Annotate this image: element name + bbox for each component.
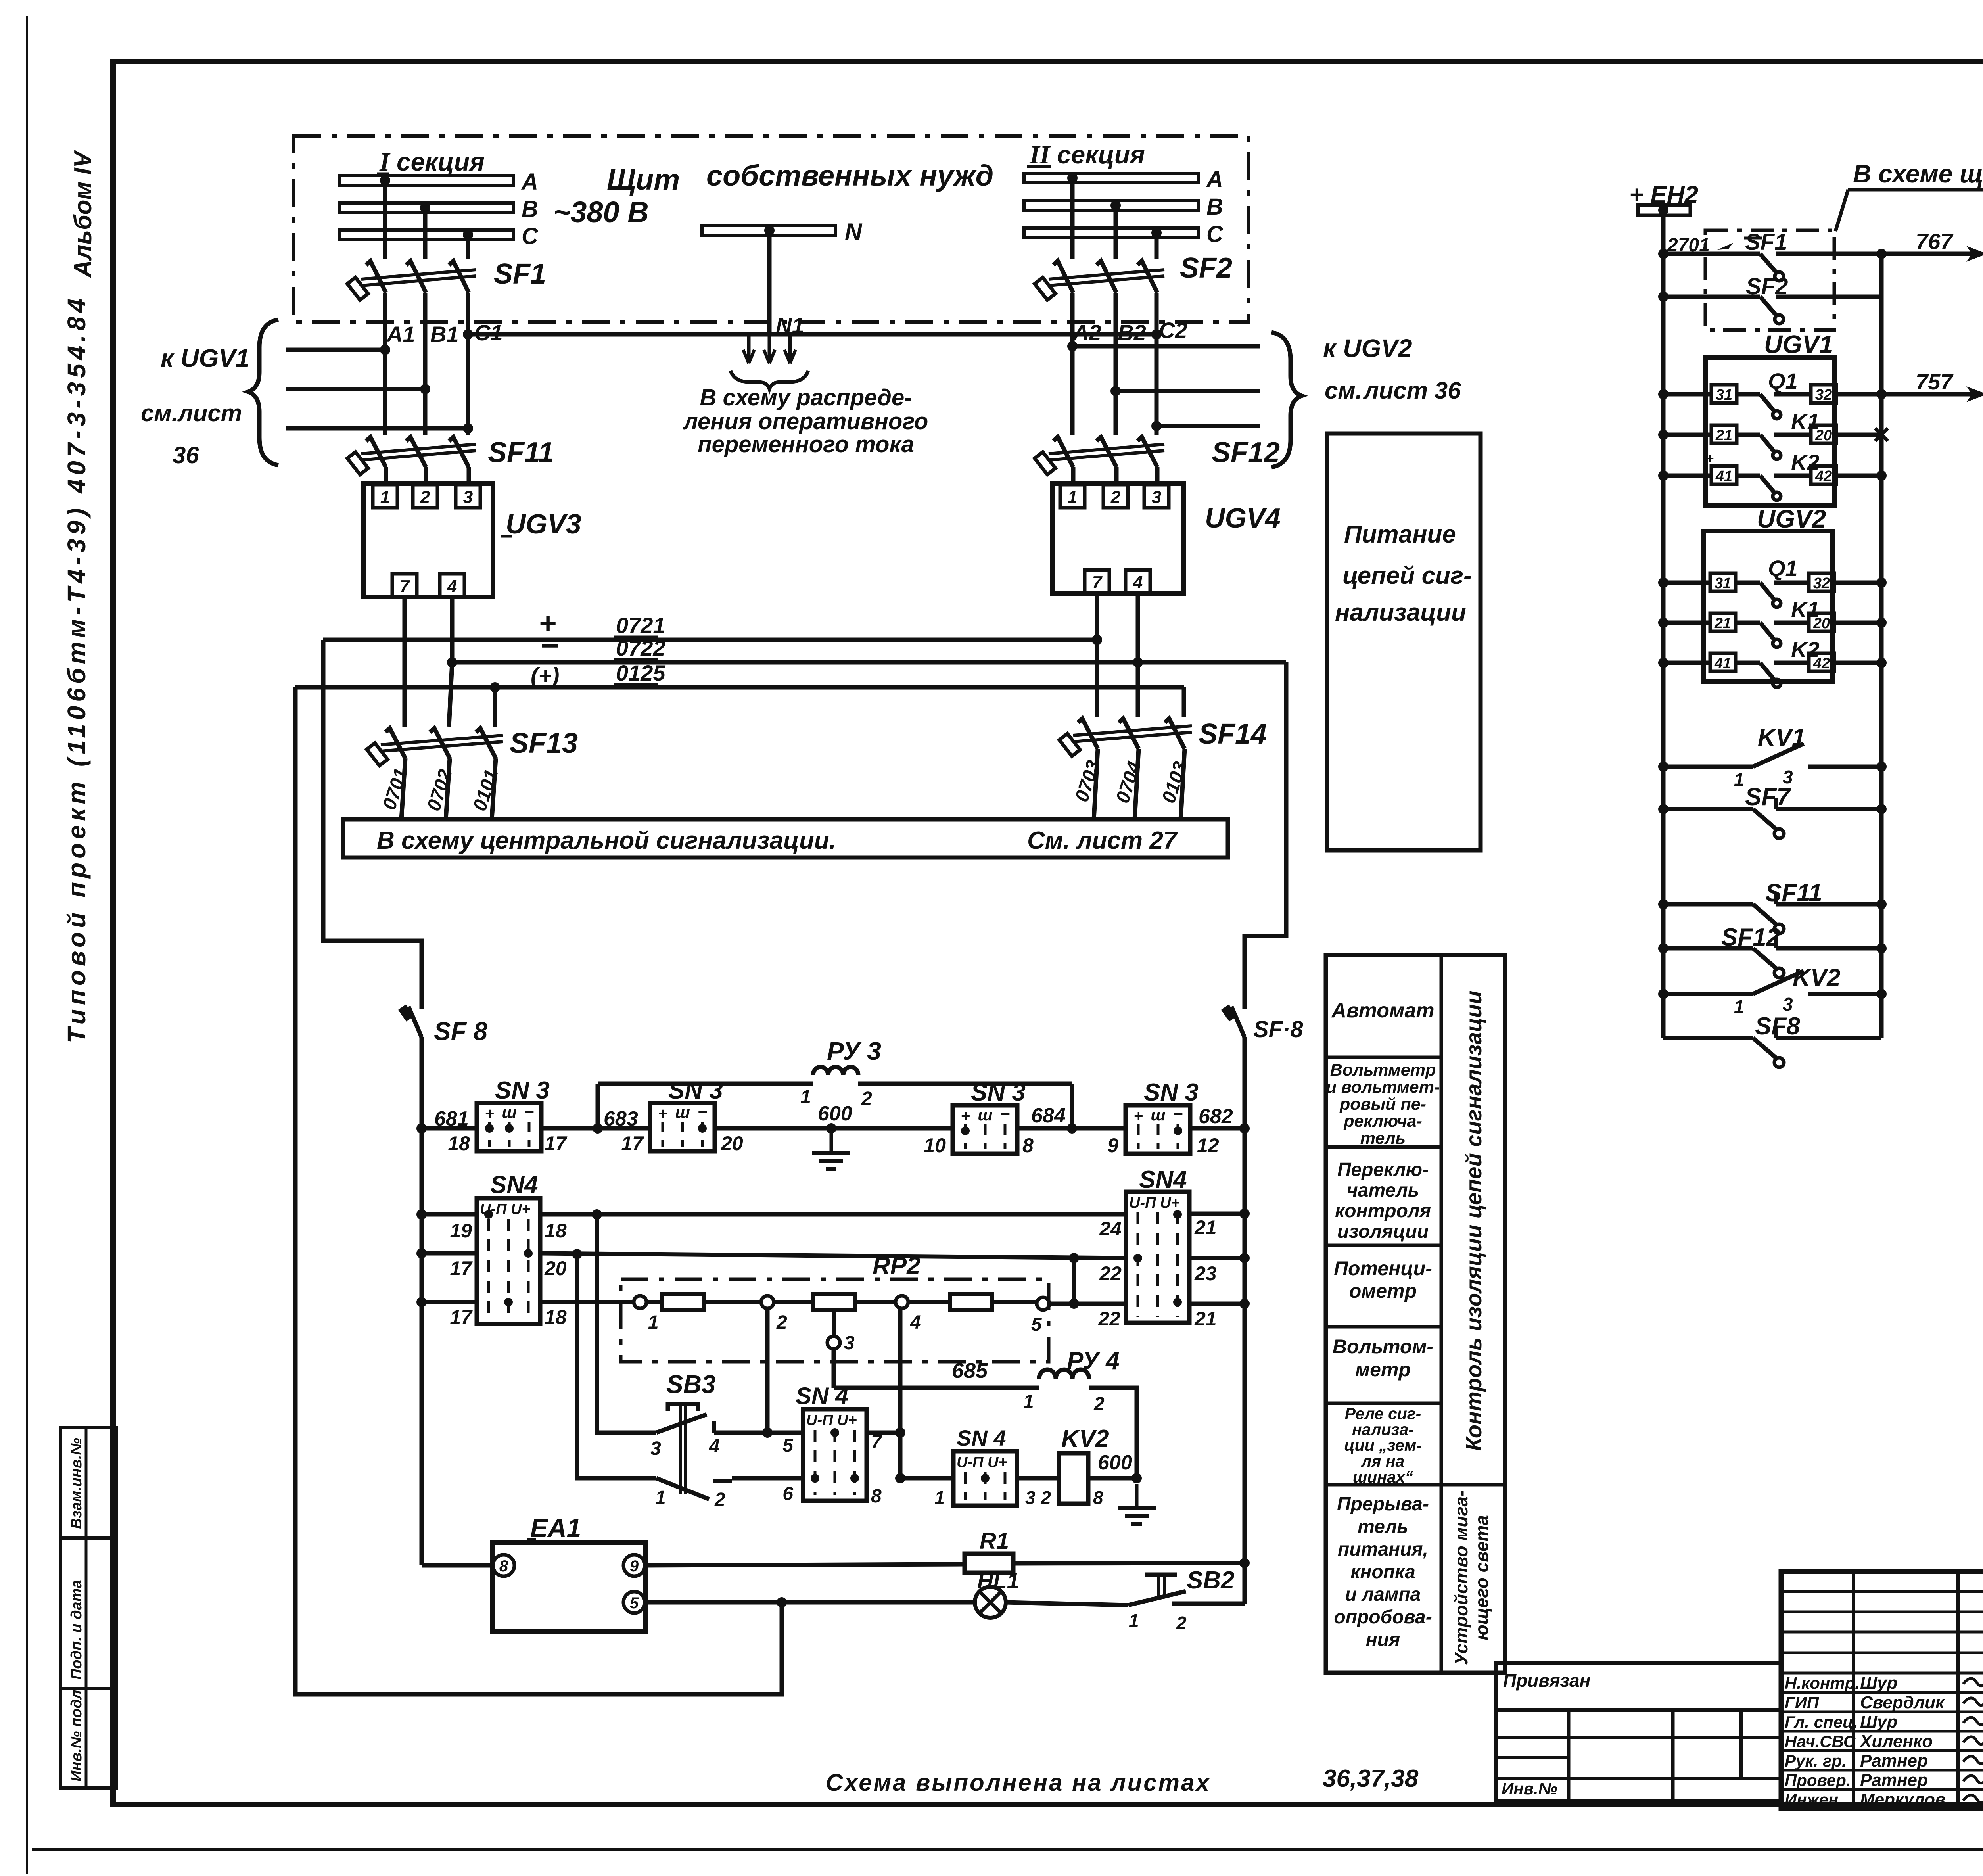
svg-text:A1: A1 — [386, 322, 415, 347]
svg-text:SF14: SF14 — [1199, 718, 1267, 750]
lower-left grid of title area — [1496, 1710, 1781, 1801]
svg-text:1: 1 — [380, 487, 390, 507]
svg-text:767: 767 — [1916, 229, 1954, 254]
svg-text:SN 3: SN 3 — [495, 1077, 550, 1104]
svg-text:7: 7 — [400, 577, 410, 596]
svg-text:1: 1 — [1023, 1391, 1034, 1412]
wire row SN4-KV2 — [900, 1476, 953, 1481]
rectifier unit UGV4 — [1053, 483, 1184, 594]
svg-text:EA1: EA1 — [530, 1513, 581, 1542]
svg-text:31: 31 — [1715, 575, 1731, 592]
svg-text:−: − — [698, 1102, 708, 1121]
svg-text:1: 1 — [648, 1312, 659, 1333]
svg-text:РУ 4: РУ 4 — [1067, 1347, 1120, 1375]
svg-text:C: C — [522, 223, 539, 249]
svg-text:Меркулов: Меркулов — [1860, 1790, 1946, 1809]
svg-text:6: 6 — [782, 1483, 793, 1504]
svg-text:SN 3: SN 3 — [668, 1077, 723, 1104]
svg-text:3: 3 — [463, 487, 473, 507]
svg-text:опробова-: опробова- — [1334, 1607, 1432, 1628]
svg-text:600: 600 — [1098, 1451, 1132, 1474]
svg-text:U-П U+: U-П U+ — [1129, 1195, 1180, 1211]
svg-text:+: + — [1705, 450, 1714, 466]
potentiometer RP2 boundary — [621, 1279, 1049, 1362]
svg-text:+: + — [658, 1105, 667, 1122]
svg-text:KV2: KV2 — [1061, 1425, 1109, 1452]
svg-text:Инв.№: Инв.№ — [1502, 1779, 1557, 1798]
svg-text:собственных нужд: собственных нужд — [706, 159, 993, 192]
riser RP2 t3 to wire 685 — [832, 1349, 836, 1388]
svg-text:B: B — [522, 196, 538, 222]
UGV2 contact K1 — [1658, 618, 1668, 628]
svg-text:20: 20 — [721, 1132, 743, 1155]
UGV1 contact K1 — [1658, 430, 1668, 440]
svg-text:A: A — [1206, 167, 1223, 192]
insulation switch SN4 no.4 — [953, 1451, 1017, 1506]
svg-text:1: 1 — [1734, 996, 1744, 1017]
title block personnel grid — [1852, 1571, 1855, 1809]
svg-text:Q1: Q1 — [1768, 556, 1798, 581]
svg-text:ГИП: ГИП — [1785, 1693, 1819, 1712]
svg-text:KV2: KV2 — [1793, 964, 1841, 992]
svg-text:секция: секция — [397, 148, 485, 176]
svg-text:ометр: ометр — [1349, 1280, 1417, 1302]
svg-text:Потенци-: Потенци- — [1334, 1257, 1432, 1279]
svg-text:−: − — [540, 628, 559, 663]
busbar II phase B — [1024, 201, 1199, 210]
svg-text:Q1: Q1 — [1768, 368, 1798, 393]
svg-text:757: 757 — [1916, 369, 1954, 394]
svg-text:5: 5 — [630, 1594, 639, 1612]
svg-text:22: 22 — [1099, 1262, 1122, 1285]
svg-text:2: 2 — [1110, 487, 1121, 507]
wire rail to EA1 pin8 — [422, 1563, 493, 1568]
svg-text:SN 3: SN 3 — [1144, 1079, 1199, 1106]
RP2 resistor 1 — [646, 1300, 662, 1304]
left rail from 0721 down — [323, 640, 422, 1009]
svg-text:SN4: SN4 — [490, 1171, 538, 1199]
svg-text:N1: N1 — [776, 313, 804, 338]
RP2 terminal 4 — [896, 1296, 908, 1308]
svg-text:32: 32 — [1815, 387, 1832, 403]
svg-text:1: 1 — [800, 1087, 811, 1108]
contact SF1 — [1658, 249, 1668, 259]
SN4 row A — [416, 1209, 427, 1220]
busbar II phase A — [1024, 173, 1199, 183]
svg-text:ш: ш — [675, 1103, 690, 1122]
svg-text:685: 685 — [952, 1359, 988, 1383]
svg-text:SF1: SF1 — [494, 258, 546, 290]
wire C1 to C2 — [468, 332, 1156, 337]
svg-text:метр: метр — [1355, 1358, 1411, 1381]
resistor R1 — [965, 1554, 1013, 1573]
relay KV2 — [1059, 1453, 1088, 1504]
tie rows B-C — [1072, 1258, 1076, 1304]
SN4 row B — [416, 1248, 427, 1258]
RP2 resistor 2 — [774, 1300, 813, 1304]
svg-text:Подп. и дата: Подп. и дата — [68, 1580, 85, 1680]
svg-text:7: 7 — [1092, 573, 1103, 592]
riser RP2 t4 down — [898, 1308, 903, 1478]
svg-text:SF12: SF12 — [1721, 924, 1780, 951]
svg-text:22: 22 — [1098, 1308, 1120, 1330]
wire 0701 — [401, 758, 405, 819]
main rail from EH2 — [1661, 215, 1666, 1038]
dash-dot box SF1 SF2 — [1705, 230, 1834, 330]
breaker SF8 left — [408, 1007, 422, 1037]
svg-text:0704: 0704 — [1112, 759, 1145, 806]
svg-text:тель: тель — [1358, 1516, 1408, 1537]
svg-text:8: 8 — [1022, 1134, 1034, 1157]
riser node 683 to PY3 — [596, 1084, 600, 1128]
contact SF2 — [1663, 295, 1760, 299]
svg-text:36,37,38: 36,37,38 — [1323, 1765, 1419, 1792]
svg-text:A: A — [521, 169, 538, 195]
title block outer — [1781, 1571, 1983, 1809]
breaker SF12 — [1070, 346, 1075, 435]
svg-text:8: 8 — [499, 1558, 508, 1575]
svg-text:секция: секция — [1057, 140, 1145, 169]
svg-text:8: 8 — [871, 1486, 882, 1507]
wires SF1 to A1 B1 C1 — [383, 293, 387, 350]
svg-text:17: 17 — [621, 1132, 644, 1155]
svg-text:12: 12 — [1197, 1134, 1219, 1157]
svg-text:ш: ш — [502, 1103, 516, 1122]
contact SF12 ladder — [1658, 943, 1668, 953]
svg-text:36: 36 — [173, 442, 199, 468]
svg-text:РУ 3: РУ 3 — [827, 1037, 881, 1065]
PY3 wire to node 684 — [858, 1082, 1072, 1086]
svg-text:Питание: Питание — [1344, 521, 1456, 548]
insulation switch SN4 no.1 — [477, 1198, 540, 1324]
svg-text:17: 17 — [450, 1257, 473, 1279]
svg-text:41: 41 — [1714, 655, 1731, 672]
svg-text:−: − — [524, 1102, 534, 1121]
svg-text:+: + — [1133, 1107, 1143, 1125]
svg-text:ровый пе-: ровый пе- — [1339, 1095, 1426, 1114]
svg-text:переменного тока: переменного тока — [698, 432, 914, 457]
voltmeter switch SN3 no.1 — [477, 1103, 541, 1151]
svg-text:изоляции: изоляции — [1337, 1221, 1429, 1242]
svg-text:Инв.№ подл.: Инв.№ подл. — [68, 1686, 85, 1782]
svg-text:к UGV1: к UGV1 — [161, 344, 250, 372]
svg-text:683: 683 — [604, 1107, 638, 1130]
svg-text:SF·8: SF·8 — [1253, 1017, 1303, 1042]
svg-text:Хиленко: Хиленко — [1859, 1732, 1933, 1751]
breaker SF2 — [1053, 261, 1073, 293]
svg-text:шинах“: шинах“ — [1353, 1468, 1413, 1486]
svg-text:N: N — [845, 219, 863, 245]
svg-text:10: 10 — [924, 1134, 946, 1157]
svg-text:684: 684 — [1031, 1104, 1066, 1127]
svg-text:8: 8 — [1093, 1487, 1103, 1508]
SN3 row wire — [416, 1123, 427, 1134]
SN4 row C — [416, 1297, 427, 1307]
svg-text:Шур: Шур — [1860, 1673, 1897, 1693]
svg-text:3: 3 — [650, 1438, 661, 1459]
svg-text:Альбом IV: Альбом IV — [69, 150, 97, 278]
svg-text:SN 3: SN 3 — [971, 1079, 1026, 1106]
svg-text:2: 2 — [1040, 1487, 1051, 1508]
svg-text:18: 18 — [545, 1220, 567, 1242]
brace under feeder arrows — [731, 371, 808, 389]
svg-text:U-П U+: U-П U+ — [957, 1454, 1007, 1471]
svg-text:600: 600 — [818, 1102, 852, 1125]
svg-text:SF2: SF2 — [1180, 252, 1232, 284]
svg-text:23: 23 — [1194, 1262, 1217, 1285]
svg-text:Устройство мига-: Устройство мига- — [1451, 1490, 1471, 1665]
PY4 wire down to node 600 — [1089, 1388, 1137, 1478]
svg-text:Автомат: Автомат — [1331, 999, 1434, 1022]
wire 685 tap — [834, 1386, 1039, 1390]
right bus vertical — [1879, 254, 1884, 1038]
svg-text:Переклю-: Переклю- — [1337, 1159, 1429, 1180]
inductor PY4 — [1039, 1370, 1089, 1379]
svg-text:и лампа: и лампа — [1345, 1584, 1421, 1605]
svg-text:ш: ш — [978, 1105, 992, 1124]
svg-text:UGV3: UGV3 — [506, 508, 581, 539]
svg-text:(+): (+) — [531, 663, 560, 689]
svg-text:нализации: нализации — [1335, 599, 1466, 626]
svg-text:В схеме щита С.Н.: В схеме щита С.Н. — [1853, 159, 1983, 188]
breaker SF11 — [383, 350, 387, 435]
svg-text:Гл. спец.: Гл. спец. — [1785, 1713, 1858, 1731]
busbar N — [702, 226, 836, 235]
svg-text:+: + — [485, 1105, 494, 1122]
svg-text:21: 21 — [1194, 1308, 1217, 1330]
svg-text:ления оперативного: ления оперативного — [683, 409, 928, 434]
insulation switch SN4 no.2 — [1126, 1192, 1189, 1323]
wire 757 out — [1881, 392, 1979, 397]
svg-text:Контроль изоляции цепей: Контроль изоляции цепей сигнализации — [1461, 991, 1486, 1451]
svg-text:+: + — [961, 1107, 970, 1125]
insulation switch SN4 no.3 — [803, 1409, 867, 1501]
svg-text:контроля: контроля — [1335, 1201, 1431, 1222]
svg-text:SF11: SF11 — [488, 437, 554, 468]
svg-text:RP2: RP2 — [873, 1252, 921, 1279]
svg-text:к UGV2: к UGV2 — [1323, 334, 1412, 363]
svg-text:17: 17 — [450, 1306, 473, 1328]
UGV2 contact K2 — [1658, 658, 1668, 668]
svg-text:2: 2 — [714, 1489, 725, 1510]
riser 0125 to SF13 — [493, 687, 497, 727]
svg-text:R1: R1 — [980, 1528, 1009, 1554]
svg-text:~380 В: ~380 В — [553, 196, 649, 228]
svg-text:0701: 0701 — [379, 765, 412, 812]
SB3 contact 3-4 — [656, 1414, 707, 1433]
UGV1 contact Q1 — [1658, 389, 1668, 399]
ground at 600 — [830, 1128, 833, 1153]
busbar II phase C — [1024, 228, 1199, 238]
svg-text:SN4: SN4 — [1139, 1166, 1187, 1193]
svg-text:18: 18 — [545, 1306, 567, 1328]
svg-text:1: 1 — [1129, 1610, 1139, 1631]
svg-text:см.лист: см.лист — [141, 400, 242, 426]
svg-text:2: 2 — [776, 1312, 787, 1333]
svg-text:Взам.инв.№: Взам.инв.№ — [68, 1438, 85, 1529]
svg-text:KV1: KV1 — [1758, 724, 1806, 751]
svg-text:7: 7 — [871, 1432, 882, 1453]
ground at KV2 600 — [1135, 1484, 1139, 1508]
wire HL1 to SB2 — [1006, 1602, 1128, 1605]
RP2 terminal 1 — [634, 1296, 646, 1308]
svg-text:681: 681 — [434, 1107, 469, 1130]
feed box питание цепей сигнализации — [1327, 434, 1481, 850]
svg-text:3: 3 — [1025, 1487, 1036, 1508]
wire row C to RP2 — [540, 1300, 635, 1304]
svg-text:3: 3 — [1783, 994, 1793, 1015]
svg-text:SF 8: SF 8 — [434, 1017, 488, 1045]
svg-text:9: 9 — [1107, 1134, 1118, 1157]
svg-text:9: 9 — [630, 1558, 639, 1575]
svg-text:2: 2 — [1176, 1613, 1187, 1633]
UGV4 pin4 drop — [1136, 594, 1140, 717]
wire 0704 — [1135, 749, 1139, 819]
svg-text:Ратнер: Ратнер — [1860, 1751, 1928, 1770]
wire R1 to right rail — [1013, 1563, 1245, 1563]
svg-text:2: 2 — [1093, 1394, 1105, 1415]
svg-text:21: 21 — [1194, 1216, 1217, 1239]
wire node 684 — [1017, 1126, 1126, 1131]
box to central signalling sheet 27 — [343, 819, 1228, 857]
riser rowA to SB3 upper — [597, 1214, 656, 1433]
svg-text:−: − — [1173, 1105, 1183, 1123]
contact KV1 — [1658, 762, 1668, 772]
wire node 682 to right rail — [1190, 1126, 1245, 1131]
привязан box — [1496, 1663, 1781, 1710]
svg-text:682: 682 — [1199, 1105, 1233, 1128]
rectifier unit UGV3 — [364, 483, 493, 597]
svg-text:Щит: Щит — [607, 163, 680, 196]
relay unit UGV1 — [1705, 357, 1834, 506]
svg-text:Провер.: Провер. — [1785, 1771, 1851, 1790]
wire 0103 — [1181, 749, 1185, 819]
svg-text:чатель: чатель — [1347, 1180, 1419, 1201]
right rail bottom turn — [1243, 1563, 1247, 1604]
svg-text:2: 2 — [861, 1088, 872, 1109]
svg-text:4: 4 — [910, 1312, 921, 1333]
svg-text:Вольтметр: Вольтметр — [1330, 1061, 1436, 1080]
SB3 contact 1-2 — [656, 1478, 709, 1499]
contact KV2 ladder — [1658, 989, 1668, 999]
svg-text:K1: K1 — [1791, 597, 1820, 622]
right rail continues — [1243, 1037, 1247, 1563]
sheet outer edge left — [26, 16, 28, 1874]
svg-text:0703: 0703 — [1071, 758, 1104, 804]
sheet outer edge bottom — [32, 1848, 1983, 1851]
breaker SF13 — [385, 728, 405, 758]
svg-text:В схему центральной с: В схему центральной сигнализации. — [377, 827, 836, 854]
svg-text:3: 3 — [1152, 487, 1161, 507]
flasher unit EA1 — [493, 1543, 645, 1631]
breaker SF14 — [1078, 719, 1098, 749]
wire term5 to SN4 — [1049, 1302, 1126, 1306]
UGV2 contact Q1 — [1658, 577, 1668, 588]
wire 0101 — [492, 758, 496, 819]
svg-text:U-П U+: U-П U+ — [806, 1412, 857, 1429]
svg-text:тель: тель — [1360, 1129, 1406, 1148]
svg-text:1: 1 — [1734, 769, 1744, 790]
left rail continues — [420, 1037, 424, 1565]
svg-text:4: 4 — [1133, 573, 1143, 592]
svg-text:SF8: SF8 — [1755, 1013, 1800, 1040]
busbar N drop N1 — [764, 225, 775, 236]
svg-text:3: 3 — [844, 1333, 855, 1354]
svg-text:реключа-: реключа- — [1343, 1112, 1422, 1131]
svg-text:5: 5 — [1031, 1314, 1042, 1335]
UGV3 pin7 drop to SF13 — [403, 597, 407, 727]
svg-text:4: 4 — [709, 1436, 720, 1457]
svg-text:K1: K1 — [1791, 409, 1820, 434]
svg-text:питания,: питания, — [1338, 1539, 1428, 1560]
svg-text:0722: 0722 — [616, 635, 665, 660]
SF2 to 767 node — [1879, 254, 1884, 297]
svg-text:SF13: SF13 — [510, 727, 578, 759]
svg-text:UGV1: UGV1 — [1764, 330, 1833, 359]
wire 0722 minus — [452, 660, 1286, 665]
svg-text:18: 18 — [448, 1132, 470, 1155]
dash-dot boundary box of switchboard — [293, 136, 1248, 322]
svg-text:17: 17 — [545, 1132, 568, 1155]
wire 0703 — [1094, 749, 1098, 819]
svg-text:SB3: SB3 — [666, 1370, 716, 1398]
svg-text:0101: 0101 — [469, 767, 502, 813]
svg-text:Вольтом-: Вольтом- — [1333, 1335, 1433, 1358]
wire SN4 pin7 — [866, 1431, 900, 1435]
RP2 terminal 3 — [832, 1310, 836, 1336]
voltmeter switch SN3 no.2 — [650, 1103, 715, 1151]
busbar I phase C — [340, 230, 514, 240]
svg-text:ш: ш — [1151, 1105, 1165, 1124]
taps from busbars I — [380, 175, 390, 186]
wire 0721 plus — [323, 638, 1097, 642]
wire 0125 reserve plus — [295, 685, 1184, 690]
svg-text:II: II — [1029, 140, 1051, 169]
svg-text:Шур: Шур — [1860, 1712, 1897, 1732]
svg-text:0702: 0702 — [423, 767, 456, 813]
legend table — [1326, 955, 1505, 1673]
svg-text:SF2: SF2 — [1746, 274, 1788, 299]
svg-text:5: 5 — [782, 1435, 794, 1456]
svg-text:−: − — [1000, 1105, 1010, 1123]
UGV1 contact K2 — [1658, 470, 1668, 481]
svg-text:21: 21 — [1714, 615, 1731, 632]
contact SF7 — [1658, 804, 1668, 814]
svg-text:0125: 0125 — [616, 660, 665, 685]
svg-text:C: C — [1206, 221, 1224, 247]
svg-text:2: 2 — [420, 487, 430, 507]
svg-text:и вольтмет-: и вольтмет- — [1326, 1078, 1440, 1097]
svg-text:1: 1 — [1068, 487, 1077, 507]
wires to UGV1 left — [286, 348, 385, 352]
riser rowB to SB3 lower — [577, 1254, 656, 1478]
contact SF8 ladder — [1663, 1036, 1753, 1040]
svg-text:В схему распреде-: В схему распреде- — [700, 385, 912, 410]
svg-text:C2: C2 — [1159, 318, 1187, 343]
busbar I phase B — [340, 203, 514, 213]
wire 0702 — [446, 758, 450, 819]
svg-text:SB2: SB2 — [1187, 1567, 1235, 1594]
svg-text:K2: K2 — [1791, 637, 1820, 662]
svg-text:B: B — [1206, 194, 1223, 220]
brace к UGV2 — [1271, 332, 1302, 467]
svg-text:Н.контр.: Н.контр. — [1785, 1674, 1860, 1692]
svg-text:кнопка: кнопка — [1350, 1561, 1415, 1583]
svg-text:Свердлик: Свердлик — [1860, 1693, 1945, 1712]
svg-text:UGV4: UGV4 — [1205, 503, 1281, 533]
svg-text:SF11: SF11 — [1765, 879, 1822, 907]
UGV3 pin4 drop — [450, 597, 455, 662]
